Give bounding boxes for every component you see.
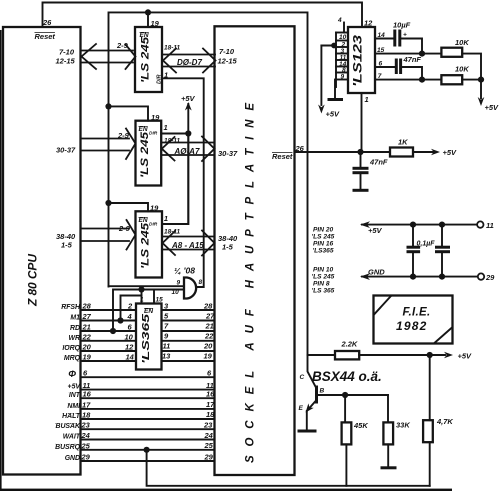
svg-text:0,1µF: 0,1µF — [417, 241, 436, 248]
node NMI labels — [67, 400, 215, 410]
svg-text:6: 6 — [379, 61, 383, 68]
node IORQ labels — [62, 342, 213, 353]
resistor R6 33K — [383, 395, 410, 467]
svg-text:27: 27 — [205, 312, 215, 321]
svg-text:'LS 245: 'LS 245 — [140, 36, 152, 83]
svg-text:E: E — [299, 405, 304, 412]
wire U6 pin7 to R2 — [375, 79, 441, 81]
node BUSAK labels — [55, 421, 213, 431]
svg-text:7-10: 7-10 — [219, 47, 235, 56]
svg-text:29: 29 — [81, 453, 91, 462]
node: socket bus labels left side — [218, 47, 239, 252]
svg-text:11: 11 — [163, 342, 171, 351]
note PIN10 LS245 PIN8 LS365 — [312, 267, 335, 295]
wire U4 pin1 stub — [141, 290, 143, 304]
wire C1 to pin15 net — [400, 39, 422, 54]
wire Q1 base line — [317, 394, 389, 396]
svg-text:'LS123: 'LS123 — [353, 34, 365, 87]
svg-text:¼ '08: ¼ '08 — [174, 266, 195, 276]
resistor R1 10K — [441, 38, 469, 57]
bus U3 to socket A8-A15 — [163, 231, 215, 256]
svg-text:10K: 10K — [455, 65, 469, 74]
svg-text:23: 23 — [203, 421, 213, 430]
svg-text:C: C — [300, 374, 305, 381]
svg-text:WR: WR — [69, 335, 81, 342]
junction dots +5V line — [410, 222, 416, 228]
svg-text:21: 21 — [82, 323, 91, 332]
junction dot pin15 net — [419, 51, 425, 57]
svg-text:1-5: 1-5 — [222, 243, 234, 252]
wire row MRQ pin19 left — [81, 360, 137, 362]
U6 tied pins stubs left — [336, 33, 348, 88]
bus CPU address 30-37 to U2 — [81, 129, 136, 160]
svg-text:9: 9 — [177, 280, 181, 287]
svg-text:25: 25 — [204, 441, 214, 450]
power +5V down arrow for U6 tied pins — [318, 43, 340, 119]
svg-text:47nF: 47nF — [403, 55, 422, 64]
node MRQ labels — [64, 352, 213, 363]
svg-text:1: 1 — [164, 123, 168, 132]
svg-text:17: 17 — [206, 400, 215, 409]
svg-text:Reset: Reset — [35, 32, 56, 41]
svg-text:10µF: 10µF — [393, 21, 411, 30]
svg-text:+5V: +5V — [326, 110, 341, 119]
svg-text:A8 - A15: A8 - A15 — [171, 241, 204, 250]
power +5V arrow right of R4 — [444, 352, 472, 361]
svg-text:+5V: +5V — [443, 148, 458, 157]
wire row BUSRQ pin25 — [81, 449, 215, 451]
svg-text:SOCKEL AUF HAUPTPLATINE: SOCKEL AUF HAUPTPLATINE — [245, 103, 257, 463]
svg-text:EN: EN — [144, 308, 153, 315]
wire gate input A from EN rail — [109, 285, 185, 287]
wire: CPU pin26 to top rail to LS123 pin12 — [43, 3, 363, 28]
svg-text:14: 14 — [126, 353, 135, 362]
svg-text:BUSAK: BUSAK — [55, 423, 81, 430]
AND gate U5 quarter '08 — [172, 266, 203, 299]
svg-text:10: 10 — [339, 34, 347, 41]
svg-text:16: 16 — [206, 390, 215, 399]
svg-text:18: 18 — [82, 411, 91, 420]
power +5V arrow down right — [478, 97, 499, 112]
svg-text:PIN 16: PIN 16 — [313, 241, 333, 248]
svg-text:11: 11 — [486, 221, 494, 230]
svg-text:INT: INT — [69, 392, 81, 399]
junction dot base/45K — [342, 392, 348, 398]
svg-text:2: 2 — [127, 302, 133, 311]
transistor Q1 BSX44 — [299, 355, 382, 413]
wire row WR pin22 right — [162, 340, 215, 342]
ground R6 — [381, 466, 397, 469]
buffer U3 'LS245 address high — [136, 211, 163, 277]
svg-text:RD: RD — [70, 325, 80, 332]
svg-text:1: 1 — [140, 297, 144, 304]
wire U6 pin1 to Reset line — [361, 93, 363, 152]
junction dots GND line — [410, 274, 416, 280]
svg-text:18-11: 18-11 — [164, 138, 181, 145]
svg-text:+5V: +5V — [68, 384, 82, 391]
svg-text:18: 18 — [206, 410, 215, 419]
svg-text:13: 13 — [162, 352, 171, 361]
svg-text:BUSRQ: BUSRQ — [55, 444, 81, 451]
svg-text:'LS365: 'LS365 — [313, 248, 334, 255]
resistor R2 10K — [441, 65, 469, 85]
wire U2 pin19 EN to rail — [109, 106, 149, 120]
wire R3 to +5V arrow — [413, 148, 457, 157]
svg-text:29: 29 — [204, 453, 214, 462]
ground Q1 emitter — [298, 430, 317, 433]
wire row GND pin29 — [81, 460, 215, 462]
svg-text:10: 10 — [172, 289, 180, 296]
svg-text:1K: 1K — [398, 138, 408, 147]
svg-text:+: + — [403, 32, 407, 39]
node BUSRQ labels — [55, 441, 214, 451]
capacitor C4 0.1uF — [407, 225, 436, 277]
svg-text:27: 27 — [82, 312, 92, 321]
svg-text:20: 20 — [82, 343, 92, 352]
svg-text:19: 19 — [204, 352, 213, 361]
SOCKEL AUF HAUPTPLATINE box — [215, 26, 295, 475]
junction dot R4 line / 4.7K — [427, 352, 433, 358]
node M1 labels — [70, 312, 215, 322]
svg-text:30-37: 30-37 — [56, 146, 76, 155]
svg-text:19: 19 — [151, 113, 160, 122]
wire U4 pin15 stub — [153, 290, 155, 304]
svg-text:28: 28 — [203, 302, 213, 311]
svg-text:GND: GND — [65, 455, 80, 462]
junction dot M1 row — [117, 317, 123, 323]
node RD labels — [70, 322, 214, 333]
note PIN20 LS245 PIN16 LS365 — [312, 227, 335, 255]
svg-text:16: 16 — [83, 390, 92, 399]
junction dot U4 pin1 — [138, 286, 144, 292]
resistor R7 4.7K — [423, 355, 453, 486]
junction dot U2 DIR +5V — [185, 130, 191, 136]
svg-text:33K: 33K — [396, 421, 410, 430]
svg-text:2-9: 2-9 — [118, 224, 131, 233]
node GND labels — [65, 453, 214, 463]
CPU pin 26 Reset label — [35, 18, 56, 41]
svg-text:'LS 365: 'LS 365 — [312, 288, 335, 295]
svg-text:'LS 245: 'LS 245 — [139, 131, 151, 178]
wire row M1 pin27 right — [162, 320, 215, 322]
svg-text:'LS 245: 'LS 245 — [312, 274, 335, 281]
svg-text:4: 4 — [127, 312, 133, 321]
svg-text:28: 28 — [82, 302, 92, 311]
wire row IORQ pin20 left — [81, 350, 137, 352]
CPU bus labels data/address — [56, 48, 77, 250]
wire U2 pin1 DIR to +5V — [161, 133, 188, 135]
capacitor C2 47nF — [396, 55, 421, 74]
node HALT labels — [62, 410, 215, 420]
bus CPU data 7-10/12-15 to U1 — [81, 44, 136, 69]
svg-text:17: 17 — [82, 400, 91, 409]
node: socket Reset pin 26 — [272, 144, 305, 161]
wire row M1 pin27 left — [81, 320, 137, 322]
wire row RFSH pin28 right — [162, 309, 215, 311]
svg-text:+5V: +5V — [368, 226, 383, 235]
wire GND distribution line — [360, 268, 495, 283]
node RFSH labels — [61, 302, 213, 312]
svg-text:24: 24 — [204, 431, 214, 440]
svg-text:BSX44 o.ä.: BSX44 o.ä. — [312, 369, 382, 384]
wire U3 pin19 EN to rail — [109, 203, 149, 211]
svg-text:1: 1 — [164, 214, 168, 223]
junction dot U2 EN rail — [105, 103, 111, 109]
bus CPU address 38-40/1-5 to U3 — [81, 220, 136, 250]
capacitor C3 47nF on Reset — [353, 152, 388, 190]
wire row +5V pin11 — [81, 389, 215, 391]
svg-text:GND: GND — [368, 268, 385, 277]
buffer U4 'LS365 — [136, 304, 162, 370]
svg-text:14: 14 — [378, 32, 386, 39]
U6 tied pin number labels — [339, 34, 347, 81]
U6 pin4 stub — [343, 23, 345, 33]
svg-text:'LS 245: 'LS 245 — [312, 234, 335, 241]
wire row HALT pin18 — [81, 418, 215, 420]
svg-text:1: 1 — [365, 95, 369, 104]
monostable U6 'LS123 — [348, 27, 375, 93]
svg-text:1-5: 1-5 — [61, 241, 73, 250]
scan artifact left edge — [0, 30, 2, 491]
svg-text:B: B — [320, 388, 325, 395]
svg-text:PIN 8: PIN 8 — [313, 281, 330, 288]
svg-text:45K: 45K — [353, 421, 368, 430]
svg-text:12-15: 12-15 — [56, 57, 76, 66]
svg-text:+5V: +5V — [485, 103, 500, 112]
svg-text:M1: M1 — [70, 315, 80, 322]
svg-text:2-9: 2-9 — [117, 131, 130, 140]
svg-text:PIN 20: PIN 20 — [313, 227, 333, 234]
wire row BUSAK pin23 — [81, 428, 215, 430]
wire row RD pin21 left — [81, 330, 137, 332]
svg-text:NMI: NMI — [67, 403, 81, 410]
svg-text:8: 8 — [199, 279, 203, 286]
wire row clock pin6 — [81, 376, 215, 378]
svg-text:12-15: 12-15 — [218, 57, 238, 66]
svg-text:4: 4 — [337, 17, 342, 24]
svg-text:20: 20 — [203, 342, 213, 351]
svg-text:WAIT: WAIT — [63, 434, 81, 441]
svg-text:15: 15 — [377, 47, 385, 54]
wire U3 pin1 DIR to +5V — [162, 134, 188, 225]
wire R2 to +5V vertical — [462, 79, 481, 81]
capacitor C1 10uF — [393, 21, 411, 47]
wire C2 to pin7 net — [401, 67, 422, 80]
svg-text:EN: EN — [139, 126, 148, 133]
junction dot R2/+5V — [478, 77, 484, 83]
svg-text:1982: 1982 — [396, 319, 428, 333]
svg-text:EN: EN — [140, 32, 149, 39]
wire: ground rail bottom — [147, 450, 430, 486]
svg-text:RFSH: RFSH — [61, 304, 81, 311]
svg-text:15: 15 — [156, 297, 164, 304]
wire row WR pin22 left — [81, 340, 137, 342]
resistor R5 45K — [342, 395, 369, 486]
wire Q1 emitter to ground — [306, 411, 308, 430]
svg-text:'LS 245: 'LS 245 — [140, 222, 152, 269]
logo F.I.E. 1982 box — [374, 296, 453, 344]
node clock labels — [68, 369, 212, 380]
wire U1 pin1 DIR from AND gate — [162, 78, 204, 287]
svg-text:29: 29 — [485, 273, 495, 282]
svg-text:1: 1 — [164, 71, 168, 80]
wire gate input B from RD row — [113, 290, 184, 332]
node +5V pin11 labels — [68, 381, 214, 391]
wire row INT pin16 — [81, 397, 215, 399]
svg-text:7-10: 7-10 — [59, 48, 75, 57]
svg-text:19: 19 — [150, 204, 159, 213]
wire row RFSH pin28 left — [81, 309, 137, 311]
svg-text:12: 12 — [125, 343, 134, 352]
wire Reset line from socket pin26 — [295, 151, 391, 153]
power +5V arrow for DIR pins — [181, 94, 196, 224]
svg-text:HALT: HALT — [62, 413, 81, 420]
svg-text:25: 25 — [81, 441, 91, 450]
buffer U2 'LS245 address low — [136, 121, 162, 186]
svg-text:30-37: 30-37 — [218, 149, 238, 158]
svg-text:DIR: DIR — [149, 222, 158, 228]
svg-text:AØ-A7: AØ-A7 — [174, 147, 200, 156]
junction dot U3 EN rail — [105, 200, 111, 206]
node INT labels — [69, 390, 215, 400]
resistor R4 2.2K — [308, 340, 446, 360]
svg-text:10K: 10K — [455, 38, 469, 47]
wire row RD pin21 right — [162, 330, 215, 332]
wire: EN rail y12 from x108.5 to x307.5 and down through Reset line to 2.2K line — [109, 12, 308, 355]
svg-text:18-11: 18-11 — [164, 45, 181, 52]
svg-text:2.2K: 2.2K — [341, 340, 358, 349]
bus U1 to socket D0-D7 — [163, 49, 216, 73]
svg-text:24: 24 — [81, 431, 91, 440]
wire M1 row to U4 pin1 — [121, 296, 142, 322]
node WAIT labels — [63, 431, 214, 441]
junction dot Reset/47nF — [357, 149, 363, 155]
svg-text:7: 7 — [378, 73, 382, 80]
svg-text:F.I.E.: F.I.E. — [403, 307, 431, 319]
svg-text:22: 22 — [204, 331, 214, 340]
svg-text:EN: EN — [139, 217, 148, 224]
svg-text:+5V: +5V — [181, 94, 196, 103]
svg-text:PIN 10: PIN 10 — [313, 267, 333, 274]
svg-text:21: 21 — [205, 322, 214, 331]
scan artifact bottom edge — [0, 489, 452, 491]
svg-text:47nF: 47nF — [369, 158, 388, 167]
wire R1 to +5V — [462, 54, 481, 98]
svg-text:19: 19 — [151, 19, 160, 28]
svg-text:10: 10 — [125, 332, 134, 341]
wire row MRQ pin19 right — [162, 360, 215, 362]
ground for U6 pin 9 — [334, 80, 336, 99]
wire U1 pin19 EN stub — [147, 12, 149, 27]
wire row IORQ pin20 right — [162, 350, 215, 352]
svg-text:Z 80 CPU: Z 80 CPU — [26, 254, 40, 307]
svg-text:26: 26 — [42, 18, 52, 27]
svg-text:IORQ: IORQ — [62, 345, 80, 352]
svg-text:'LS365: 'LS365 — [140, 314, 152, 364]
svg-text:+5V: +5V — [458, 352, 473, 361]
junction dot row25 to ground rail — [144, 447, 150, 453]
svg-text:Φ: Φ — [68, 369, 76, 380]
junction dot RD row — [110, 328, 116, 334]
wire U6 pin15 to R1 — [375, 53, 441, 55]
wire U6 pin6 to cap C2 — [375, 66, 396, 68]
wire row WAIT pin24 — [81, 439, 215, 441]
wire row NMI pin17 — [81, 408, 215, 410]
node WR labels — [69, 331, 215, 342]
svg-text:DØ-D7: DØ-D7 — [177, 58, 202, 67]
Z80 CPU box U0 — [3, 27, 81, 475]
svg-text:DIR: DIR — [149, 131, 158, 137]
svg-text:18-11: 18-11 — [164, 229, 181, 236]
svg-text:9: 9 — [341, 74, 345, 81]
svg-text:23: 23 — [81, 421, 91, 430]
svg-text:MRQ: MRQ — [64, 355, 81, 362]
buffer U1 'LS245 data — [135, 27, 163, 92]
bus U2 to socket A0-A7 — [162, 137, 215, 162]
svg-text:Reset: Reset — [272, 152, 293, 161]
junction dot U1 EN on rail — [145, 9, 151, 15]
resistor R3 1K — [390, 138, 413, 157]
svg-text:2-9: 2-9 — [116, 41, 129, 50]
junction dot pin7 net — [419, 77, 425, 83]
svg-text:19: 19 — [83, 353, 92, 362]
wire U6 pin14 to cap — [375, 38, 394, 40]
svg-text:4,7K: 4,7K — [436, 417, 453, 426]
wire +5V distribution line — [360, 221, 494, 235]
capacitor C5 — [435, 225, 450, 277]
svg-text:22: 22 — [82, 332, 92, 341]
